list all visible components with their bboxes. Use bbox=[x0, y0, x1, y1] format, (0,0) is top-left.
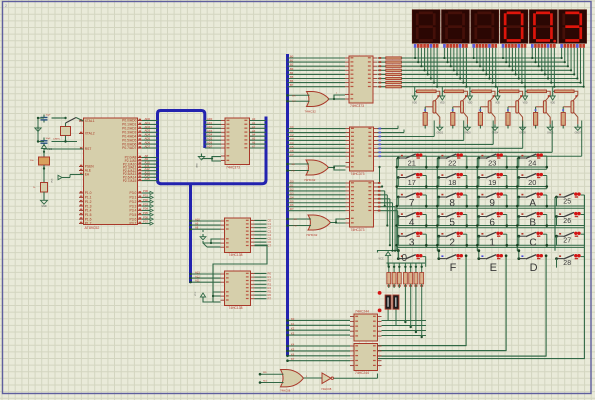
svg-text:K0: K0 bbox=[291, 317, 295, 321]
svg-text:C2: C2 bbox=[268, 226, 272, 230]
switch key 6 bbox=[476, 212, 508, 229]
svg-text:A1: A1 bbox=[252, 121, 256, 125]
svg-text:AT89C52: AT89C52 bbox=[85, 226, 100, 230]
switch key F bbox=[437, 249, 463, 274]
7-segment display DS4 bbox=[500, 10, 528, 44]
svg-text:18: 18 bbox=[448, 178, 456, 187]
wire U10 outputs bbox=[382, 346, 547, 357]
svg-text:74HC373: 74HC373 bbox=[350, 104, 364, 108]
svg-text:74HC08: 74HC08 bbox=[321, 387, 332, 391]
svg-text:R0: R0 bbox=[268, 272, 272, 276]
or-gate U11A 74HC08 bbox=[259, 370, 322, 393]
ground reset bbox=[40, 197, 47, 208]
wire keypad row lines bbox=[397, 167, 585, 247]
wire keypad column rails bbox=[397, 158, 555, 251]
svg-text:B6: B6 bbox=[290, 79, 294, 83]
transistor Q2 driver bbox=[440, 90, 472, 135]
switch key B bbox=[516, 212, 548, 229]
svg-text:3: 3 bbox=[409, 237, 415, 248]
wire CR drops bbox=[388, 310, 396, 326]
wire bus to U2 inputs bbox=[205, 117, 221, 149]
svg-text:R3: R3 bbox=[268, 282, 272, 286]
svg-text:K5: K5 bbox=[291, 347, 295, 351]
svg-text:F: F bbox=[450, 262, 457, 274]
wire bus to U4 select bbox=[189, 270, 220, 283]
switch key 21 bbox=[396, 153, 428, 169]
switch key 27 bbox=[555, 232, 584, 246]
svg-text:VCC: VCC bbox=[52, 178, 54, 183]
switch key 2 bbox=[436, 232, 468, 249]
capacitor C3 reset bbox=[30, 152, 50, 172]
latch U6 74HC373 bbox=[346, 127, 378, 176]
svg-text:K3: K3 bbox=[291, 332, 295, 336]
svg-text:AD7: AD7 bbox=[207, 145, 213, 149]
transistor Q4 driver bbox=[495, 90, 527, 135]
wire U6 outputs to digit drivers bbox=[378, 121, 582, 158]
svg-text:VDD: VDD bbox=[550, 103, 555, 105]
svg-text:AD1: AD1 bbox=[207, 121, 213, 125]
svg-text:24: 24 bbox=[528, 159, 536, 168]
wire U3 to U4 link bbox=[213, 245, 267, 296]
7-segment display DS2 bbox=[442, 10, 470, 44]
capacitor C2 bbox=[41, 138, 78, 147]
svg-text:A2: A2 bbox=[252, 125, 256, 129]
svg-text:A0: A0 bbox=[252, 117, 256, 121]
svg-text:GND7: GND7 bbox=[575, 133, 582, 135]
svg-text:7: 7 bbox=[409, 198, 415, 209]
svg-text:B0: B0 bbox=[290, 55, 294, 59]
svg-text:A4: A4 bbox=[252, 133, 256, 137]
svg-text:21: 21 bbox=[408, 159, 416, 168]
ground for crystal caps bbox=[35, 117, 44, 143]
svg-text:C5: C5 bbox=[290, 145, 294, 149]
buffer U10 74HC244 bbox=[350, 344, 382, 376]
wire keypad col2 return bbox=[378, 254, 468, 345]
svg-text:GND2: GND2 bbox=[437, 133, 444, 135]
svg-text:D7: D7 bbox=[290, 207, 294, 211]
svg-text:22: 22 bbox=[448, 159, 456, 168]
wire display pins to segment bus bbox=[414, 48, 585, 88]
svg-text:E: E bbox=[490, 262, 497, 274]
svg-text:AD3: AD3 bbox=[207, 129, 213, 133]
svg-text:C3: C3 bbox=[290, 137, 294, 141]
svg-text:74HC373: 74HC373 bbox=[226, 165, 240, 169]
svg-text:A6: A6 bbox=[252, 141, 256, 145]
svg-text:VDD: VDD bbox=[523, 103, 528, 105]
svg-text:D: D bbox=[530, 262, 538, 274]
power flag keypad VCC bbox=[378, 249, 400, 267]
svg-text:C7: C7 bbox=[290, 153, 294, 157]
svg-text:C5: C5 bbox=[268, 237, 272, 241]
svg-text:B: B bbox=[529, 218, 536, 229]
svg-text:C1: C1 bbox=[290, 129, 294, 133]
svg-text:8: 8 bbox=[449, 198, 455, 209]
svg-text:XTAL1: XTAL1 bbox=[85, 119, 95, 123]
svg-text:B1: B1 bbox=[290, 59, 294, 63]
svg-text:A12: A12 bbox=[195, 275, 200, 279]
svg-text:P37: P37 bbox=[143, 220, 148, 224]
svg-text:A11: A11 bbox=[195, 279, 200, 283]
svg-text:GND: GND bbox=[197, 163, 199, 168]
switch key 18 bbox=[436, 173, 468, 189]
wire MCU P3 net stubs bbox=[142, 189, 153, 225]
svg-text:23: 23 bbox=[488, 159, 496, 168]
transistor Q6 driver bbox=[550, 90, 582, 135]
wire keypad right col return bbox=[378, 195, 585, 359]
svg-text:74HC138: 74HC138 bbox=[229, 306, 243, 310]
svg-text:VCC: VCC bbox=[195, 291, 197, 296]
svg-text:GND3: GND3 bbox=[464, 133, 471, 135]
transistor Q3 driver bbox=[467, 90, 499, 135]
latch U2 74HC373 bbox=[221, 118, 254, 169]
transistor Q1 driver bbox=[412, 90, 444, 135]
svg-text:74HC138: 74HC138 bbox=[229, 253, 243, 257]
wire MCU P0,P2 to bus bbox=[142, 117, 158, 181]
svg-text:VDD: VDD bbox=[412, 103, 417, 105]
svg-text:D6: D6 bbox=[290, 203, 294, 207]
svg-text:C4: C4 bbox=[268, 233, 272, 237]
or-gate U8C 74HC32 bbox=[286, 215, 345, 237]
svg-text:74HC32: 74HC32 bbox=[305, 110, 317, 114]
svg-text:C: C bbox=[529, 237, 536, 248]
svg-text:C4: C4 bbox=[290, 141, 294, 145]
svg-text:74HC373: 74HC373 bbox=[351, 172, 365, 176]
wire bus to U7 inputs bbox=[288, 180, 346, 212]
or-gate U8A 74HC32 bbox=[286, 92, 345, 114]
switch key 1 bbox=[476, 232, 508, 249]
wire U2 outputs to bus bbox=[250, 117, 267, 149]
switch key D bbox=[517, 249, 543, 274]
power flag VCC reset bbox=[41, 145, 52, 152]
bus main vertical bbox=[286, 54, 289, 356]
svg-text:A10: A10 bbox=[195, 217, 200, 221]
svg-text:VDD: VDD bbox=[495, 103, 500, 105]
svg-text:25: 25 bbox=[563, 199, 571, 206]
svg-text:R1: R1 bbox=[268, 275, 272, 279]
wire bus to U5 inputs bbox=[288, 55, 346, 88]
svg-text:74HC32: 74HC32 bbox=[304, 178, 316, 182]
decoder U3 74HC138 bbox=[221, 218, 255, 257]
svg-text:4: 4 bbox=[409, 218, 415, 229]
svg-text:74HC32: 74HC32 bbox=[306, 233, 318, 237]
svg-text:2: 2 bbox=[5, 4, 7, 8]
wire U9 outputs bbox=[382, 321, 427, 336]
svg-text:A13: A13 bbox=[195, 270, 200, 274]
svg-text:P3.7: P3.7 bbox=[130, 222, 137, 226]
bus loop MCU to latch U2 bbox=[158, 111, 267, 184]
switch key 26 bbox=[555, 212, 584, 226]
svg-text:AD6: AD6 bbox=[207, 141, 213, 145]
svg-text:D2: D2 bbox=[290, 187, 294, 191]
svg-text:WR: WR bbox=[292, 164, 296, 166]
svg-text:K1: K1 bbox=[291, 322, 295, 326]
power arrow EA bbox=[52, 175, 84, 184]
7-segment display DS6 bbox=[559, 10, 587, 44]
switch key 3 bbox=[396, 232, 428, 249]
svg-text:A7: A7 bbox=[252, 145, 256, 149]
svg-text:74HC08: 74HC08 bbox=[280, 389, 291, 393]
svg-text:A15: A15 bbox=[145, 177, 151, 181]
svg-text:19: 19 bbox=[488, 178, 496, 187]
svg-text:B5: B5 bbox=[290, 75, 294, 79]
wire keypad col4 return bbox=[378, 254, 548, 356]
switch key 7 bbox=[396, 192, 428, 209]
switch key 0 bbox=[397, 249, 426, 266]
display pin tags bbox=[414, 44, 585, 48]
svg-text:A8: A8 bbox=[195, 226, 199, 230]
svg-text:B3: B3 bbox=[290, 67, 294, 71]
svg-text:AD5: AD5 bbox=[207, 137, 213, 141]
svg-text:R2: R2 bbox=[268, 279, 272, 283]
switch key 9 bbox=[476, 192, 508, 209]
buffer U9 74HC244 bbox=[350, 310, 382, 342]
switch key 28 bbox=[555, 254, 584, 268]
svg-text:R7: R7 bbox=[268, 297, 272, 301]
svg-text:P2.7/A15: P2.7/A15 bbox=[123, 179, 137, 183]
svg-text:WR: WR bbox=[263, 372, 267, 374]
svg-text:VCC: VCC bbox=[379, 258, 384, 261]
switch key 25 bbox=[555, 192, 584, 206]
wire segment bus lines bbox=[403, 58, 583, 87]
svg-text:WR: WR bbox=[292, 95, 296, 97]
component CR2 bbox=[378, 295, 399, 312]
latch U7 74HC373 bbox=[346, 181, 378, 232]
resistor pack RP1 bbox=[387, 263, 426, 287]
switch key A bbox=[516, 192, 548, 209]
bus drop to decoders bbox=[189, 184, 192, 283]
resistor network RN1 bbox=[378, 57, 404, 88]
svg-text:XTAL2: XTAL2 bbox=[85, 132, 95, 136]
svg-text:AD7: AD7 bbox=[145, 144, 151, 148]
7-segment display DS1 bbox=[412, 10, 440, 44]
switch key 24 bbox=[516, 153, 548, 169]
component CR1 bbox=[378, 291, 391, 309]
ground U3 enable bbox=[200, 230, 220, 247]
svg-text:P0.7/AD7: P0.7/AD7 bbox=[122, 146, 136, 150]
switch key 22 bbox=[436, 153, 468, 169]
switch key 20 bbox=[516, 173, 548, 189]
wire U3 outputs labels bbox=[255, 219, 272, 248]
wire bus to U9 inputs bbox=[286, 317, 350, 337]
svg-text:D4: D4 bbox=[290, 195, 294, 199]
switch key 23 bbox=[476, 153, 508, 169]
svg-text:C3: C3 bbox=[268, 229, 272, 233]
switch key 19 bbox=[476, 173, 508, 189]
svg-text:9: 9 bbox=[489, 198, 495, 209]
svg-text:1: 1 bbox=[489, 237, 495, 248]
svg-text:12MHz: 12MHz bbox=[53, 139, 60, 141]
svg-text:D0: D0 bbox=[290, 180, 294, 184]
svg-text:B4: B4 bbox=[290, 71, 294, 75]
crystal X1 12MHz bbox=[52, 117, 84, 143]
svg-text:C2: C2 bbox=[290, 133, 294, 137]
or-gate U8B 74HC32 bbox=[286, 160, 345, 182]
svg-text:WR: WR bbox=[294, 219, 298, 221]
wire bus to U6 inputs bbox=[288, 125, 346, 157]
svg-text:74HC244: 74HC244 bbox=[355, 310, 369, 314]
svg-text:74HC244: 74HC244 bbox=[355, 371, 369, 375]
resistor R1 reset bbox=[33, 167, 48, 197]
svg-text:D5: D5 bbox=[290, 199, 294, 203]
svg-text:RST: RST bbox=[85, 147, 92, 151]
svg-text:B7: B7 bbox=[290, 83, 294, 87]
capacitor C1 bbox=[41, 115, 61, 123]
svg-text:C0: C0 bbox=[290, 125, 294, 129]
switch key C bbox=[516, 232, 548, 249]
svg-text:R5: R5 bbox=[268, 290, 272, 294]
svg-text:6: 6 bbox=[489, 218, 495, 229]
wire resistor pack drops bbox=[389, 284, 423, 338]
svg-text:30pF: 30pF bbox=[46, 115, 52, 117]
svg-text:27: 27 bbox=[563, 238, 571, 245]
svg-text:AD2: AD2 bbox=[207, 125, 213, 129]
svg-text:C1: C1 bbox=[268, 222, 272, 226]
wire U4 outputs labels bbox=[255, 272, 272, 301]
svg-text:C6: C6 bbox=[268, 240, 272, 244]
svg-text:2: 2 bbox=[449, 237, 455, 248]
svg-text:K7: K7 bbox=[291, 357, 295, 361]
svg-text:C7: C7 bbox=[268, 244, 272, 248]
svg-text:R4: R4 bbox=[268, 286, 272, 290]
switch key 4 bbox=[396, 212, 428, 229]
svg-text:K2: K2 bbox=[291, 327, 295, 331]
svg-text:D3: D3 bbox=[290, 191, 294, 195]
svg-text:C0: C0 bbox=[268, 219, 272, 223]
wire bus to U3 select bbox=[189, 217, 220, 230]
wire bus to U10 inputs bbox=[286, 343, 350, 363]
wire U7 outputs to keypad bbox=[378, 166, 399, 252]
inverter U12A 74HC04 bbox=[321, 373, 378, 391]
svg-text:20: 20 bbox=[528, 178, 536, 187]
svg-text:R6: R6 bbox=[268, 293, 272, 297]
svg-text:C6: C6 bbox=[290, 149, 294, 153]
svg-text:A5: A5 bbox=[252, 137, 256, 141]
svg-text:GND: GND bbox=[41, 205, 47, 208]
svg-text:VDD: VDD bbox=[440, 103, 445, 105]
latch U5 74HC373 bbox=[345, 56, 377, 108]
svg-text:30pF: 30pF bbox=[46, 138, 52, 140]
wire base feeds bbox=[415, 87, 553, 92]
ground U2 LE bbox=[197, 154, 222, 169]
svg-text:A9: A9 bbox=[195, 222, 199, 226]
7-segment display DS5 bbox=[529, 10, 557, 44]
switch key E bbox=[477, 249, 503, 274]
svg-text:28: 28 bbox=[563, 260, 571, 267]
switch key 17 bbox=[396, 173, 428, 189]
svg-text:D1: D1 bbox=[290, 183, 294, 187]
svg-text:K6: K6 bbox=[291, 352, 295, 356]
svg-text:17: 17 bbox=[408, 178, 416, 187]
microcontroller U1 AT89C52 bbox=[79, 118, 142, 230]
svg-text:5: 5 bbox=[449, 218, 455, 229]
power flag U4 enable bbox=[195, 291, 221, 302]
svg-text:A: A bbox=[529, 198, 536, 209]
svg-text:26: 26 bbox=[563, 218, 571, 225]
svg-text:B2: B2 bbox=[290, 63, 294, 67]
svg-text:VDD: VDD bbox=[467, 103, 472, 105]
switch key 8 bbox=[436, 192, 468, 209]
decoder U4 74HC138 bbox=[221, 271, 255, 310]
svg-text:74HC373: 74HC373 bbox=[351, 228, 365, 232]
svg-text:AD0: AD0 bbox=[207, 117, 213, 121]
svg-text:K4: K4 bbox=[291, 343, 295, 347]
svg-text:GND6: GND6 bbox=[547, 133, 554, 135]
wire reset to RST pin bbox=[43, 149, 84, 153]
transistor Q5 driver bbox=[523, 90, 555, 135]
svg-text:AD4: AD4 bbox=[207, 133, 213, 137]
svg-text:A3: A3 bbox=[252, 129, 256, 133]
7-segment display DS3 bbox=[471, 10, 499, 44]
switch key 5 bbox=[436, 212, 468, 229]
wire keypad col3 return bbox=[378, 254, 508, 350]
